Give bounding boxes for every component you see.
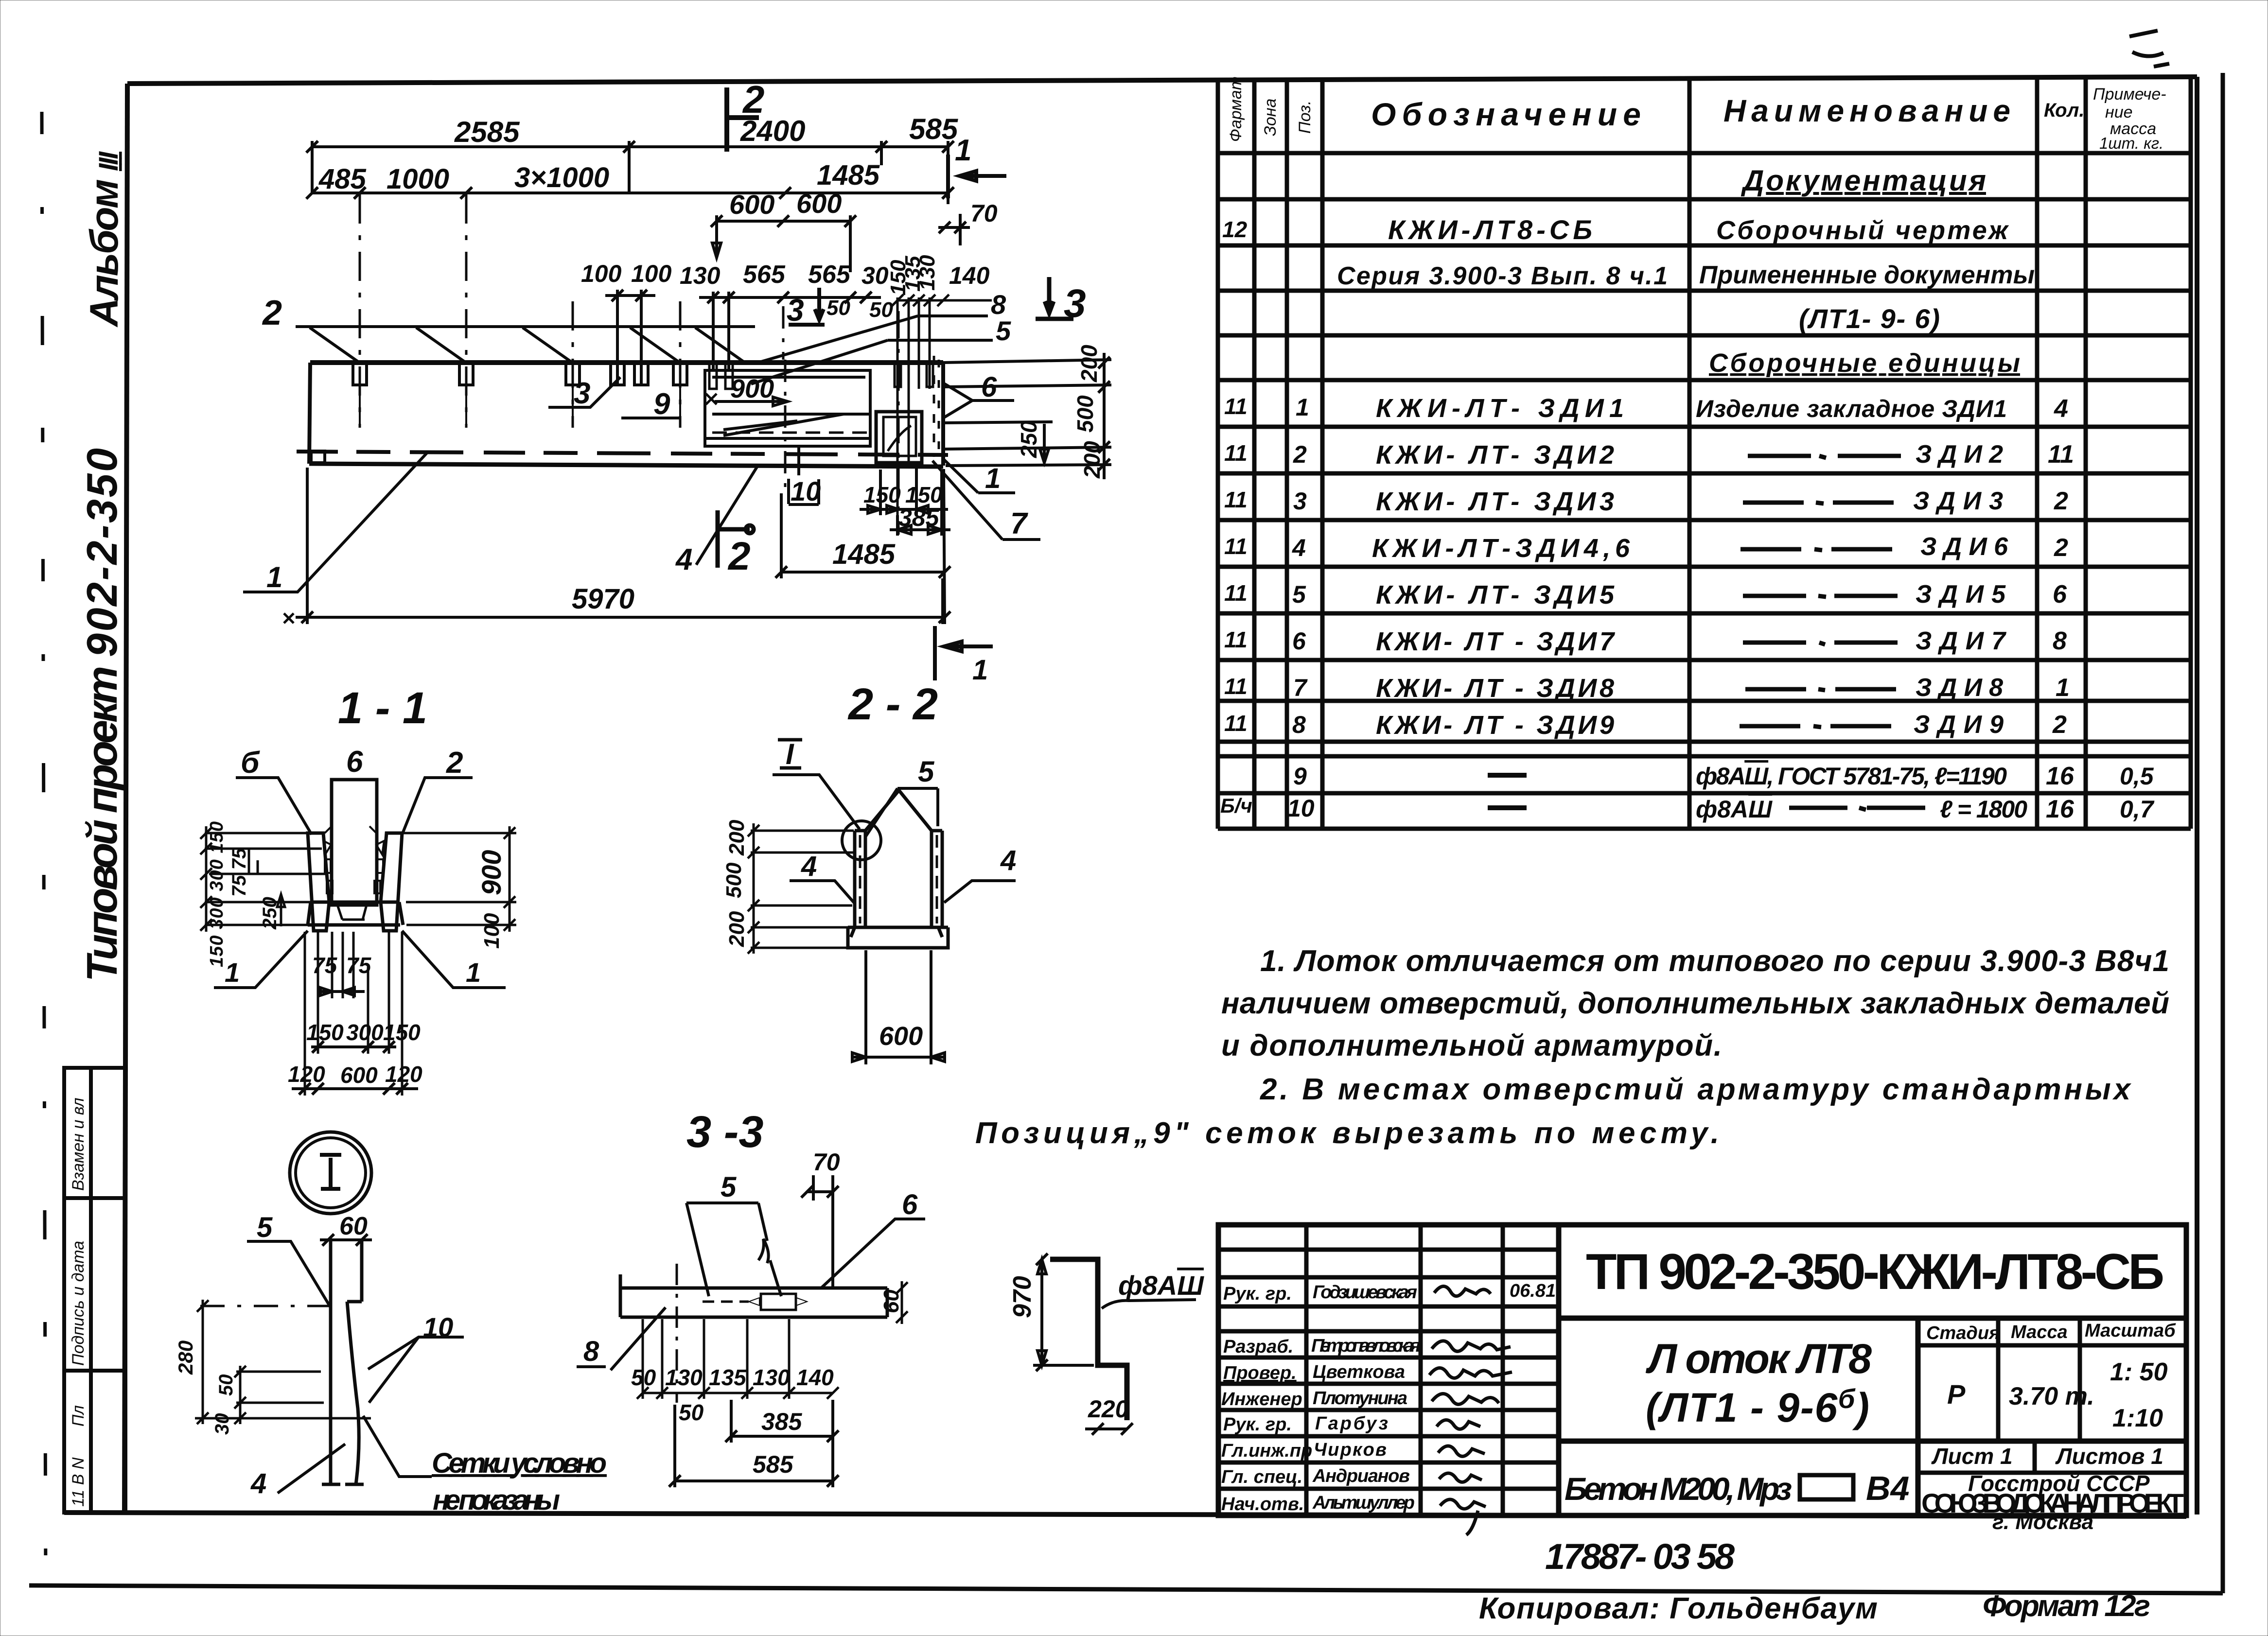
svg-text:(ЛТ1 - 9-6б): (ЛТ1 - 9-6б) — [1646, 1383, 1869, 1430]
witness dashdot verticals to anchors — [360, 194, 680, 428]
svg-text:150: 150 — [863, 482, 901, 507]
svg-text:Провер.: Провер. — [1223, 1363, 1297, 1383]
svg-text:7: 7 — [1010, 507, 1028, 540]
svg-text:и дополнительной арматурой.: и дополнительной арматурой. — [1221, 1029, 1722, 1062]
svg-text:1000: 1000 — [387, 163, 449, 195]
svg-text:1485: 1485 — [817, 159, 880, 191]
section 2-2 dim 600 — [851, 950, 946, 1064]
svg-text:Гл. спец.: Гл. спец. — [1221, 1467, 1302, 1487]
dim line 2585/2400/585 — [306, 141, 954, 204]
svg-text:1: 1 — [1296, 394, 1309, 421]
node circle I — [290, 1132, 371, 1214]
dim line 485/1000/3x1000/1485 — [306, 187, 954, 199]
svg-text:2: 2 — [1293, 441, 1307, 468]
svg-text:I: I — [786, 738, 794, 770]
svg-text:130: 130 — [915, 255, 939, 291]
section 2-2 left dims — [748, 823, 855, 954]
svg-text:Серия 3.900-3 Вып. 8 ч.1: Серия 3.900-3 Вып. 8 ч.1 — [1337, 262, 1668, 290]
title block grid — [1218, 1225, 2186, 1515]
anchor plate 4 — [673, 364, 687, 385]
svg-text:КЖИ- ЛТ - ЗДИ9: КЖИ- ЛТ - ЗДИ9 — [1376, 711, 1614, 740]
svg-text:Инженер: Инженер — [1221, 1389, 1302, 1410]
svg-text:900: 900 — [730, 374, 774, 403]
sidebar stamp table — [64, 1068, 125, 1513]
svg-text:3: 3 — [1064, 281, 1086, 326]
svg-text:2: 2 — [2054, 487, 2068, 515]
svg-text:Масштаб: Масштаб — [2085, 1321, 2176, 1341]
svg-text:385: 385 — [761, 1408, 803, 1435]
svg-text:Копировал: Гольденбаум: Копировал: Гольденбаум — [1479, 1592, 1878, 1625]
svg-text:1 - 1: 1 - 1 — [338, 683, 427, 733]
section 1-1 wall inner details — [323, 826, 384, 893]
svg-text:Р: Р — [1947, 1379, 1966, 1410]
svg-text:9: 9 — [653, 387, 670, 421]
svg-text:5970: 5970 — [572, 583, 634, 615]
dim 600/600 — [711, 215, 856, 272]
svg-text:Позиция„9" сеток вырезать п: Позиция„9" сеток вырезать по месту. — [975, 1116, 1719, 1150]
svg-text:В4: В4 — [1866, 1469, 1909, 1507]
svg-text:ЗДИ3: ЗДИ3 — [1913, 487, 2003, 515]
svg-text:1485: 1485 — [832, 539, 896, 570]
svg-text:3.70 т.: 3.70 т. — [2009, 1382, 2094, 1410]
section mark 3 right — [1036, 277, 1073, 319]
svg-text:1шт. кг.: 1шт. кг. — [2099, 134, 2163, 152]
section 3-3 bottom dims row 1 — [637, 1319, 839, 1399]
svg-text:585: 585 — [753, 1451, 794, 1478]
svg-text:Поз.: Поз. — [1296, 101, 1314, 134]
anchor plate 3 — [566, 364, 580, 385]
beam dashed hidden line — [297, 452, 948, 455]
svg-text:5: 5 — [257, 1212, 273, 1243]
svg-text:КЖИ- ЛТ- ЗДИ2: КЖИ- ЛТ- ЗДИ2 — [1376, 440, 1614, 470]
svg-text:ф8АШ: ф8АШ — [1696, 796, 1773, 823]
svg-text:ЗДИ8: ЗДИ8 — [1916, 674, 2003, 702]
svg-text:100: 100 — [480, 913, 504, 949]
svg-text:900: 900 — [476, 850, 507, 895]
svg-text:970: 970 — [1008, 1276, 1037, 1318]
svg-text:ние: ние — [2105, 103, 2133, 122]
section mark 2 bottom — [718, 510, 754, 568]
svg-text:Гарбуз: Гарбуз — [1315, 1413, 1388, 1434]
svg-text:11: 11 — [1224, 711, 1248, 736]
svg-text:1: 1 — [972, 654, 988, 686]
svg-text:2. В местах отверстий армат: 2. В местах отверстий арматуру стандартн… — [1260, 1073, 2132, 1106]
section 3-3 embedded piece — [761, 1294, 796, 1310]
svg-text:3×1000: 3×1000 — [514, 162, 609, 193]
svg-text:11: 11 — [1224, 627, 1248, 652]
svg-text:75 75: 75 75 — [229, 848, 250, 897]
svg-text:250: 250 — [259, 897, 281, 930]
svg-text:ф8АШ, ГОСТ 5781-75, ℓ=1190: ф8АШ, ГОСТ 5781-75, ℓ=1190 — [1696, 763, 2007, 790]
section 1-1 bottom witness verticals — [305, 932, 402, 1096]
svg-text:4: 4 — [675, 543, 692, 576]
section mark 2 top — [727, 87, 759, 152]
svg-text:КЖИ- ЛТ- ЗДИ5: КЖИ- ЛТ- ЗДИ5 — [1376, 580, 1615, 609]
svg-text:200: 200 — [725, 819, 749, 856]
leader 5 — [888, 339, 993, 342]
svg-text:наличием отверстий, дополните: наличием отверстий, дополнительных закла… — [1221, 987, 2169, 1020]
svg-text:2: 2 — [742, 78, 765, 121]
signatures squiggles — [1429, 1286, 1512, 1535]
section 2-2 bottom slab — [848, 927, 948, 948]
svg-text:КЖИ-ЛТ- ЗДИ1: КЖИ-ЛТ- ЗДИ1 — [1376, 394, 1624, 423]
svg-text:50: 50 — [869, 298, 893, 322]
section 3 cut dash line — [782, 306, 785, 360]
section 2-2 detail circle — [842, 821, 881, 860]
svg-text:11 В N: 11 В N — [69, 1457, 88, 1507]
svg-text:Сборочные единицы: Сборочные единицы — [1709, 348, 2020, 378]
svg-text:г. Москва: г. Москва — [1992, 1510, 2093, 1534]
svg-text:130: 130 — [680, 262, 721, 289]
svg-text:140: 140 — [796, 1365, 834, 1390]
svg-text:Зона: Зона — [1261, 99, 1280, 136]
svg-text:ℓ = 1800: ℓ = 1800 — [1940, 796, 2027, 823]
svg-text:50: 50 — [826, 296, 850, 320]
svg-text:11: 11 — [1224, 534, 1248, 559]
svg-text:Типовой проект: Типовой проект — [78, 666, 126, 982]
section 2-2 wall rebar dashes — [859, 835, 861, 923]
svg-text:2585: 2585 — [454, 116, 520, 148]
section mark 1 top right — [948, 155, 1006, 198]
svg-text:70: 70 — [970, 200, 998, 227]
svg-text:3: 3 — [1293, 487, 1307, 515]
svg-text:8: 8 — [583, 1336, 599, 1367]
section 3-3 slab — [620, 1274, 887, 1317]
svg-text:ЗДИ6: ЗДИ6 — [1920, 533, 2008, 561]
svg-text:130: 130 — [753, 1365, 790, 1390]
svg-text:600: 600 — [340, 1062, 378, 1088]
svg-text:5: 5 — [918, 755, 935, 788]
svg-text:2: 2 — [2052, 711, 2067, 739]
svg-text:30: 30 — [211, 1413, 233, 1435]
svg-text:1: 1 — [225, 957, 240, 988]
svg-text:8: 8 — [1292, 711, 1306, 738]
section mark 1 bottom right — [935, 626, 993, 680]
svg-text:Стадия: Стадия — [1926, 1323, 2000, 1343]
svg-text:600: 600 — [879, 1022, 923, 1051]
svg-text:500: 500 — [1072, 395, 1098, 433]
svg-text:КЖИ- ЛТ- ЗДИ3: КЖИ- ЛТ- ЗДИ3 — [1376, 487, 1614, 516]
svg-text:б: б — [241, 746, 260, 780]
svg-text:Подпись и дата: Подпись и дата — [69, 1241, 88, 1366]
svg-text:250: 250 — [1016, 420, 1041, 458]
svg-text:6: 6 — [2053, 580, 2067, 609]
svg-text:10: 10 — [1287, 795, 1315, 822]
svg-text:75: 75 — [346, 953, 372, 978]
svg-text:4: 4 — [1292, 534, 1306, 561]
svg-text:12: 12 — [1222, 217, 1248, 242]
svg-text:150 300 300 150: 150 300 300 150 — [207, 821, 227, 967]
svg-text:7: 7 — [1293, 674, 1308, 701]
svg-text:600: 600 — [796, 188, 842, 219]
svg-text:Бетон М200, Мрз: Бетон М200, Мрз — [1565, 1471, 1792, 1507]
page outer border left (dashed scan edge) — [42, 112, 46, 1584]
dim 70 — [938, 214, 970, 245]
svg-text:1:10: 1:10 — [2112, 1404, 2163, 1432]
svg-text:11: 11 — [1224, 440, 1248, 466]
svg-text:5: 5 — [1292, 581, 1306, 608]
dashed plate marks at beam right edge — [933, 356, 935, 457]
svg-text:75: 75 — [312, 953, 338, 978]
svg-text:50: 50 — [679, 1400, 704, 1425]
svg-text:220: 220 — [1088, 1395, 1129, 1423]
svg-text:4: 4 — [250, 1468, 266, 1499]
dim 130 565 565 30 — [699, 292, 881, 369]
svg-text:11: 11 — [1224, 487, 1248, 512]
svg-text:Сетки условно: Сетки условно — [432, 1447, 607, 1479]
svg-text:2: 2 — [2054, 534, 2068, 562]
svg-text:1: 1 — [955, 134, 971, 167]
svg-text:Годзишевская: Годзишевская — [1313, 1282, 1417, 1303]
section 3-3 inclined plate pos 5 — [686, 1203, 781, 1296]
svg-text:6: 6 — [346, 745, 363, 779]
svg-text:1: 1 — [985, 463, 1001, 494]
dim 250 — [1040, 424, 1049, 463]
svg-text:2: 2 — [446, 746, 463, 780]
svg-text:6: 6 — [1292, 627, 1306, 655]
svg-text:Формат 12г: Формат 12г — [1983, 1589, 2150, 1623]
svg-text:0,5: 0,5 — [2120, 763, 2154, 790]
svg-text:11: 11 — [1224, 580, 1248, 606]
svg-text:150: 150 — [383, 1020, 421, 1045]
svg-text:150: 150 — [306, 1020, 344, 1045]
svg-text:565: 565 — [743, 261, 786, 289]
svg-text:Чирков: Чирков — [1314, 1440, 1387, 1460]
svg-text:585: 585 — [909, 113, 959, 145]
svg-text:16: 16 — [2046, 762, 2075, 790]
embedded square pos 7 — [876, 412, 922, 463]
svg-text:16: 16 — [2046, 795, 2075, 823]
svg-text:485: 485 — [318, 163, 367, 195]
svg-text:Петропавловская: Петропавловская — [1311, 1336, 1421, 1356]
svg-text:ТП 902-2-350-КЖИ-ЛТ8-СБ: ТП 902-2-350-КЖИ-ЛТ8-СБ — [1586, 1244, 2164, 1300]
anchor plate pair at cut 3 — [611, 364, 624, 385]
svg-text:140: 140 — [949, 262, 990, 289]
svg-text:06.81: 06.81 — [1510, 1281, 1556, 1301]
svg-text:5: 5 — [721, 1171, 737, 1203]
svg-text:Цветкова: Цветкова — [1313, 1362, 1405, 1382]
svg-text:1: 1 — [266, 561, 282, 593]
svg-text:Альтшуллер: Альтшуллер — [1312, 1493, 1415, 1513]
svg-text:КЖИ-ЛТ-ЗДИ4,6: КЖИ-ЛТ-ЗДИ4,6 — [1372, 534, 1630, 563]
svg-text:11: 11 — [2048, 440, 2074, 469]
svg-text:902-2-350: 902-2-350 — [78, 448, 126, 657]
svg-text:2: 2 — [727, 534, 751, 578]
svg-text:1: 1 — [466, 957, 481, 988]
svg-text:4: 4 — [2054, 395, 2068, 423]
svg-text:6: 6 — [902, 1189, 918, 1220]
svg-text:Примененные документы: Примененные документы — [1699, 261, 2035, 289]
svg-text:1. Лоток отличается от типо: 1. Лоток отличается от типового по серии… — [1260, 944, 2169, 978]
svg-text:50: 50 — [631, 1365, 656, 1390]
svg-text:КЖИ- ЛТ - ЗДИ8: КЖИ- ЛТ - ЗДИ8 — [1376, 674, 1614, 703]
dim 100 100 — [605, 290, 655, 385]
svg-text:300: 300 — [346, 1020, 384, 1045]
leader 8 — [918, 314, 988, 317]
svg-text:130: 130 — [665, 1365, 703, 1390]
svg-text:Сборочный чертеж: Сборочный чертеж — [1716, 216, 2009, 245]
svg-text:135: 135 — [709, 1365, 747, 1390]
svg-text:(ЛТ1- 9- 6): (ЛТ1- 9- 6) — [1799, 303, 1940, 334]
section 1-1 witness lines left — [200, 826, 326, 932]
svg-text:1: 50: 1: 50 — [2110, 1358, 2168, 1386]
svg-text:3: 3 — [787, 293, 804, 328]
section 3-3 axis dash line — [676, 1264, 678, 1403]
svg-text:500: 500 — [722, 862, 746, 898]
svg-text:Документация: Документация — [1741, 164, 1986, 197]
section 2-2 walls with pointed top — [855, 790, 942, 927]
svg-text:Пл: Пл — [69, 1405, 88, 1427]
svg-text:КЖИ- ЛТ - ЗДИ7: КЖИ- ЛТ - ЗДИ7 — [1376, 627, 1616, 656]
svg-text:100: 100 — [581, 260, 622, 287]
section 1-1 channel walls — [308, 833, 403, 931]
svg-text:2 - 2: 2 - 2 — [847, 679, 938, 729]
svg-text:не показаны: не показаны — [433, 1484, 560, 1516]
svg-text:Взамен и вл: Взамен и вл — [69, 1097, 88, 1191]
svg-text:Андрианов: Андрианов — [1312, 1466, 1410, 1486]
right cluster witness verticals — [892, 295, 992, 535]
svg-text:17887- 03 58: 17887- 03 58 — [1545, 1536, 1735, 1577]
svg-text:Обозначение: Обозначение — [1371, 96, 1641, 132]
svg-text:Альбом III: Альбом III — [82, 151, 126, 328]
svg-text:Рук. гр.: Рук. гр. — [1223, 1414, 1292, 1435]
right vertical dim chain 200/500/200 — [1098, 353, 1110, 479]
svg-text:50: 50 — [215, 1375, 237, 1396]
signature rows labels — [1221, 1281, 1556, 1514]
svg-text:Лист 1: Лист 1 — [1931, 1444, 2013, 1469]
svg-text:200: 200 — [1079, 441, 1105, 479]
svg-text:ЗДИ9: ЗДИ9 — [1914, 711, 2004, 739]
svg-text:Изделие закладное ЗДИ1: Изделие закладное ЗДИ1 — [1696, 395, 2007, 422]
svg-text:Рук. гр.: Рук. гр. — [1223, 1284, 1292, 1304]
svg-text:Масса: Масса — [2011, 1322, 2068, 1342]
svg-text:Разраб.: Разраб. — [1223, 1337, 1293, 1357]
svg-text:Л оток ЛТ8: Л оток ЛТ8 — [1645, 1336, 1872, 1382]
svg-text:1: 1 — [2056, 674, 2070, 702]
svg-text:3: 3 — [574, 377, 590, 410]
svg-text:565: 565 — [808, 261, 851, 289]
beam left end notch — [311, 451, 325, 463]
svg-text:Кол.: Кол. — [2044, 100, 2085, 121]
svg-text:ЗДИ7: ЗДИ7 — [1916, 627, 2006, 655]
section 1-1 right dim 900/100 — [404, 826, 516, 932]
leader 2 with hatch diagonals — [296, 325, 755, 328]
svg-text:60: 60 — [339, 1212, 368, 1240]
scan smudge top right — [2129, 31, 2169, 67]
svg-text:КЖИ-ЛТ8-СБ: КЖИ-ЛТ8-СБ — [1388, 214, 1592, 245]
svg-text:200: 200 — [1076, 345, 1102, 383]
svg-text:ЗДИ2: ЗДИ2 — [1916, 440, 2003, 469]
svg-text:10: 10 — [791, 476, 821, 506]
svg-text:200: 200 — [725, 911, 749, 947]
bent bar pos 10 — [1050, 1259, 1127, 1420]
svg-text:Гл.инж.пр: Гл.инж.пр — [1221, 1441, 1312, 1461]
embedded assembly box — [705, 370, 870, 446]
svg-text:70: 70 — [813, 1149, 840, 1176]
vertical dashdot through square 7 — [897, 311, 900, 535]
beam body outline — [309, 363, 943, 467]
specification table grid — [1218, 77, 2191, 829]
svg-text:100: 100 — [631, 260, 672, 287]
page outer border right — [2221, 73, 2225, 1593]
svg-text:ЗДИ5: ЗДИ5 — [1916, 580, 2006, 609]
anchor plate 1 — [353, 364, 367, 385]
beam right side extension lines — [943, 360, 1111, 466]
section 1-1 central slab pos 6 — [332, 780, 377, 905]
node detail plate pos 5 — [322, 1240, 364, 1484]
svg-text:0,7: 0,7 — [2120, 796, 2155, 823]
svg-text:2: 2 — [262, 294, 282, 332]
svg-text:Примече-: Примече- — [2093, 85, 2166, 104]
svg-text:120: 120 — [288, 1062, 325, 1087]
svg-text:Б/ч: Б/ч — [1220, 794, 1252, 817]
svg-text:4: 4 — [801, 851, 817, 882]
svg-text:11: 11 — [1224, 394, 1248, 419]
svg-text:60: 60 — [879, 1289, 903, 1313]
page outer border bottom — [29, 1585, 2223, 1593]
svg-text:ф8АШ: ф8АШ — [1118, 1270, 1204, 1301]
svg-text:120: 120 — [385, 1062, 422, 1087]
node detail witness lines — [195, 1300, 371, 1424]
svg-text:600: 600 — [729, 189, 774, 220]
embedded plates at box corners — [709, 364, 717, 389]
svg-text:Наименование: Наименование — [1723, 93, 2010, 128]
svg-text:Плотунина: Плотунина — [1313, 1388, 1407, 1409]
svg-text:8: 8 — [2053, 627, 2067, 655]
svg-text:Листов 1: Листов 1 — [2055, 1444, 2163, 1469]
svg-text:3 -3: 3 -3 — [686, 1107, 764, 1157]
svg-text:11: 11 — [1224, 674, 1248, 699]
svg-text:Фармат: Фармат — [1227, 76, 1245, 142]
svg-text:4: 4 — [1000, 845, 1016, 876]
svg-text:Нач.отв.: Нач.отв. — [1221, 1494, 1304, 1514]
anchor plate 2 — [459, 364, 473, 385]
svg-text:5: 5 — [996, 315, 1011, 346]
svg-text:9: 9 — [1293, 763, 1307, 790]
svg-text:280: 280 — [174, 1340, 197, 1375]
svg-text:30: 30 — [861, 262, 889, 289]
